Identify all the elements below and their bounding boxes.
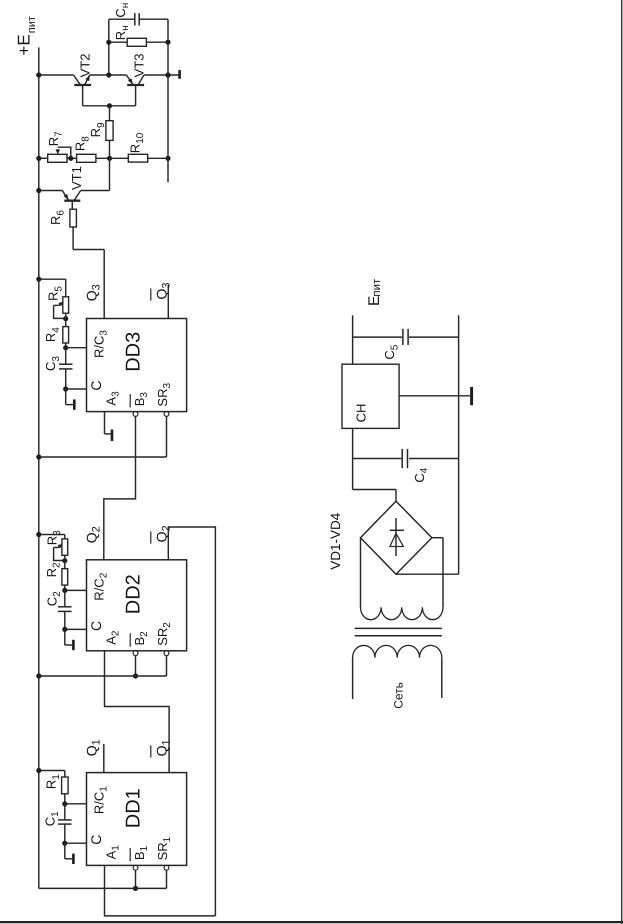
- svg-text:пит: пит: [371, 278, 383, 297]
- svg-text:+Е: +Е: [14, 34, 33, 55]
- svg-text:DD3: DD3: [122, 332, 144, 372]
- svg-text:VT1: VT1: [69, 166, 84, 190]
- svg-text:VD1-VD4: VD1-VD4: [328, 512, 343, 570]
- svg-text:C: C: [88, 621, 104, 631]
- svg-text:C: C: [88, 380, 104, 390]
- svg-text:СН: СН: [353, 404, 368, 423]
- svg-text:пит: пит: [26, 16, 38, 33]
- svg-text:Сеть: Сеть: [391, 682, 405, 709]
- svg-text:DD1: DD1: [122, 788, 144, 828]
- svg-text:C: C: [88, 835, 104, 845]
- svg-text:VT2: VT2: [78, 54, 93, 78]
- svg-text:DD2: DD2: [122, 574, 144, 614]
- svg-text:VT3: VT3: [132, 54, 147, 78]
